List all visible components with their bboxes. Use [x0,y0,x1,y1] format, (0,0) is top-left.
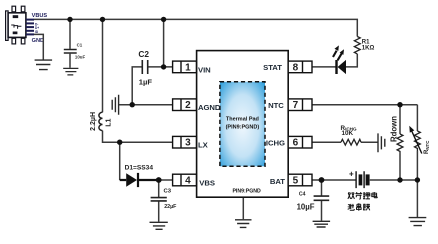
wire USB GND to ground [34,34,43,59]
svg-text:VIN: VIN [198,65,211,74]
wire VBUS top rail [34,19,357,36]
svg-text:C1: C1 [77,42,83,47]
svg-text:GND: GND [32,38,44,44]
svg-text:ICHG: ICHG [266,138,285,147]
resistor R1 [354,37,360,54]
svg-text:5: 5 [293,176,299,187]
svg-text:NTC: NTC [268,101,284,110]
junction rail-VIN [161,17,166,22]
svg-text:AGND: AGND [198,103,221,112]
wire C2 right lead [148,66,164,68]
ground (C3) [150,222,168,229]
wire Rdown bottom lead [399,154,401,180]
pin 2 box [173,99,197,111]
capacitor C3 [151,198,167,201]
wire BAT net down to ground [416,180,418,217]
thermistor RNTC [415,131,421,151]
svg-text:LX: LX [198,141,209,150]
svg-text:BAT: BAT [270,177,285,186]
inductor L1 [99,112,103,130]
label RNTC [424,140,430,154]
svg-text:+: + [349,170,354,179]
pin 1 box [173,61,197,73]
ground (USB) [35,60,53,70]
svg-text:D1=SS34: D1=SS34 [125,165,154,172]
junction BAT-C4 [319,177,325,183]
ground (C1) [63,68,78,75]
ground (BAT right) [409,218,427,226]
wire Rdown top lead [399,105,401,134]
wire RNTC bottom lead [416,151,418,180]
pin 7 box [288,99,312,111]
pin 8 box [288,61,312,73]
junction rail-C1 [67,17,72,22]
battery BT1 [356,171,370,188]
svg-text:C4: C4 [299,191,306,197]
wire L1 lead from rail [102,19,104,112]
svg-text:VBS: VBS [199,178,215,187]
wire L1 bottom to LX pin 3 [103,131,173,143]
capacitor C2 [142,60,147,74]
pin numbers [185,62,299,186]
svg-text:4: 4 [185,176,191,187]
wire NTC net pin 7 [312,104,417,106]
USB connector inner details [13,15,19,34]
junction BAT-RNTC [415,177,420,182]
USB pin 4 [26,30,34,32]
svg-text:L1: L1 [105,119,112,127]
wire RNTC top lead [416,105,418,131]
wire C1 lead from rail [69,19,71,49]
thermal pad (PIN9 PGND) [220,82,265,167]
pin 5 box [288,174,312,186]
ground (AGND sideways) [112,95,118,115]
junction rail-L1 [100,17,105,22]
USB pin 3 [26,26,34,28]
junction D1-C3-VBS [156,177,162,183]
svg-text:2: 2 [185,100,191,111]
junction VIN-C2 [161,64,166,69]
op-amp U1 IC body [197,51,289,198]
svg-text:10K: 10K [342,130,354,137]
svg-text:STAT: STAT [263,63,282,72]
svg-text:1KΩ: 1KΩ [362,46,375,52]
USB pin 1 VBUS [26,19,34,21]
pin 4 box [173,174,197,186]
svg-text:1: 1 [185,62,191,73]
svg-text:VBUS: VBUS [32,13,48,19]
junction LX-D1 [117,140,122,145]
svg-text:1µF: 1µF [139,77,153,86]
svg-text:C2: C2 [138,49,149,59]
svg-text:10uF: 10uF [75,54,86,59]
svg-text:10µF: 10µF [297,203,315,212]
pin 6 box [288,136,312,148]
USB pin 2 [26,22,34,24]
svg-text:7: 7 [293,100,299,111]
ground (C4) [313,221,331,227]
wire C3 leads [158,180,160,222]
label battery text line 1 (CJK drawn) [348,192,377,199]
capacitor C1 [64,50,77,54]
svg-text:2.2µH: 2.2µH [90,112,97,131]
wire LED anode to R1 bottom [346,54,357,67]
svg-text:C3: C3 [164,189,172,195]
junction AGND-C2 [130,102,135,107]
wire battery to NTC divider bottom [370,179,418,181]
resistor RCHG [341,139,361,145]
USB pin 5 GND [26,33,34,35]
wire D1 cathode to pin 4 [159,179,173,181]
wire pin 5 BAT to battery [312,179,356,181]
svg-text:(PIN9:PGND): (PIN9:PGND) [226,125,260,131]
svg-text:PIN9:PGND: PIN9:PGND [232,189,261,195]
svg-text:3: 3 [185,138,191,149]
svg-text:Thermal Pad: Thermal Pad [226,117,259,123]
RNTC arrow [412,131,422,153]
LED D2 [333,45,346,74]
capacitor C4 [314,196,330,200]
svg-text:RNTC: RNTC [424,140,430,154]
wire pin 8 STAT to LED [312,66,336,68]
diode D1 [120,173,159,187]
svg-text:22µF: 22µF [164,204,177,210]
USB receptacle icon [11,25,21,29]
wire C4 leads [321,180,323,221]
pin 3 box [173,136,197,148]
ground (ICHG sideways) [378,133,385,152]
wire AGND to pin 2 [119,104,173,106]
resistor Rdown [397,134,403,154]
junction BAT-Rdown [397,177,402,182]
svg-text:8: 8 [293,62,299,73]
wire VIN drop [164,19,173,67]
label battery text line 2 (CJK drawn) [348,203,370,210]
wire pin 6 ICHG to RCHG [312,141,341,143]
wire IC PGND to ground [242,197,244,219]
svg-text:6: 6 [293,138,299,149]
pin name labels [198,63,285,187]
junction NTC-Rdown [397,102,402,107]
svg-text:Rdown: Rdown [390,116,399,142]
USB connector J1 [6,6,26,44]
wire C2 left lead down to AGND [132,67,142,105]
USB pin tiny marks [35,22,39,34]
wire RCHG to ground [361,141,378,143]
ground (IC PGND) [235,220,252,228]
wire LX down to D1 [119,142,121,180]
